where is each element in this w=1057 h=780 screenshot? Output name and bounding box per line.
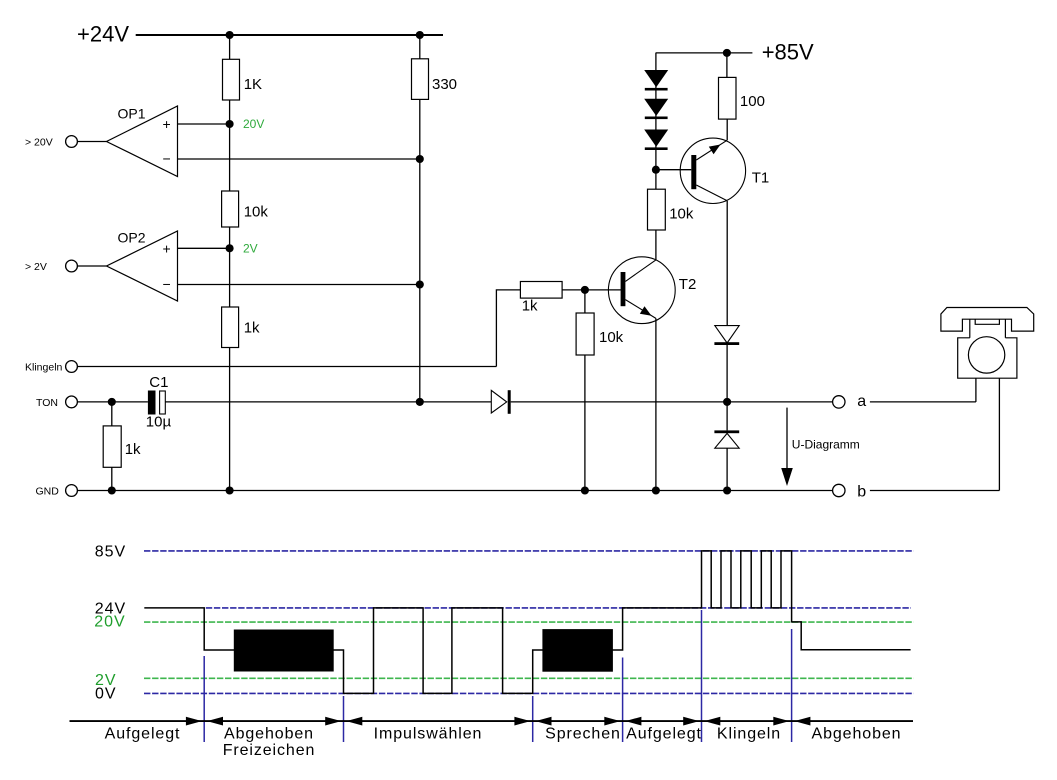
wire D5 to a line <box>726 345 728 402</box>
wire 2V dashed level <box>144 677 914 679</box>
svg-text:10k: 10k <box>599 329 624 346</box>
telephone dial <box>968 337 1004 373</box>
node speech block 1 <box>234 630 334 672</box>
svg-text:> 2V: > 2V <box>25 261 47 273</box>
junction rail-1K <box>226 31 234 39</box>
wire rail to R 330 <box>419 35 421 59</box>
wire Klingeln riser <box>496 290 520 367</box>
terminal a <box>833 396 845 408</box>
svg-text:a: a <box>857 393 866 410</box>
node 20V junction <box>226 120 234 128</box>
wire +24V rail <box>136 34 443 36</box>
node boundary separator 2 <box>343 696 345 742</box>
telephone handset bar detail <box>975 319 999 324</box>
wire a to telephone <box>870 401 976 403</box>
node axis arrows 5 <box>683 717 699 726</box>
wire 1K to node 20V and down <box>229 100 231 191</box>
op-amp OP1 <box>107 106 178 177</box>
node axis arrows 4 <box>604 717 620 726</box>
svg-text:T2: T2 <box>679 276 697 293</box>
svg-text:> 20V: > 20V <box>25 137 53 149</box>
wire TON node to 1k <box>111 402 113 426</box>
svg-text:−: − <box>163 276 171 292</box>
diode D6 <box>714 430 739 433</box>
node axis arrows 2 <box>325 717 341 726</box>
node boundary separator 1 <box>203 656 205 742</box>
wire OP2 output <box>77 265 106 267</box>
wire OP2 - input to 330 branch <box>178 284 420 286</box>
wire T2 collector up to 10k <box>655 230 657 260</box>
telephone neck <box>969 319 971 338</box>
svg-text:b: b <box>857 483 866 500</box>
node axis arrows 6 <box>773 717 789 726</box>
svg-text:T1: T1 <box>752 169 770 186</box>
junction 1k-GND <box>108 486 116 494</box>
wire 85V rail to 100 <box>726 53 728 78</box>
terminal TON <box>66 396 78 408</box>
telephone body <box>958 338 1017 378</box>
svg-text:Aufgelegt: Aufgelegt <box>626 726 702 743</box>
wire 10k pulldown to GND line <box>584 355 586 491</box>
svg-text:+: + <box>163 116 171 132</box>
terminal GND <box>66 485 78 497</box>
transistor T1 <box>680 138 745 203</box>
svg-text:2V: 2V <box>243 241 258 255</box>
wire Klingeln line <box>77 366 496 368</box>
svg-text:10k: 10k <box>244 204 269 221</box>
wire D6 to b line <box>726 448 728 490</box>
resistor 1K <box>223 59 240 100</box>
svg-text:OP1: OP1 <box>118 105 146 121</box>
wire 330 branch down to TON line <box>419 99 421 402</box>
junction D5-a line <box>723 398 731 406</box>
resistor 330 <box>412 59 429 100</box>
wire 1k to GND line <box>111 467 113 490</box>
svg-text:OP2: OP2 <box>118 229 146 245</box>
junction T2 base node <box>581 286 589 294</box>
wire time axis <box>70 720 914 722</box>
wire a line to D6 <box>726 402 728 431</box>
telephone handset <box>941 308 1034 332</box>
svg-text:1k: 1k <box>244 320 260 337</box>
wire U signal trace <box>144 551 910 694</box>
svg-text:0V: 0V <box>95 685 117 702</box>
wire 10k to node 2V <box>229 227 231 307</box>
svg-text:Abgehoben: Abgehoben <box>224 726 314 743</box>
resistor 10k T1 base <box>648 189 666 230</box>
svg-text:20V: 20V <box>94 614 125 631</box>
svg-text:10µ: 10µ <box>146 413 172 430</box>
wire b to telephone <box>870 490 1000 492</box>
resistor 10k pulldown T2 <box>576 313 594 355</box>
svg-text:Freizeichen: Freizeichen <box>223 742 316 759</box>
svg-text:Impulswählen: Impulswählen <box>374 726 483 743</box>
terminal > 2V <box>66 260 78 272</box>
svg-text:C1: C1 <box>149 374 168 391</box>
wire 1k divider down to GND line <box>229 348 231 491</box>
terminal > 20V <box>66 136 78 148</box>
wire telephone leg b <box>998 378 1000 490</box>
svg-text:1K: 1K <box>244 76 262 93</box>
node boundary separator 4 <box>622 658 624 743</box>
diode D1 <box>644 70 668 87</box>
node boundary separator 3 <box>532 696 534 742</box>
svg-text:85V: 85V <box>95 543 126 560</box>
wire diode D4 to terminal a <box>511 401 833 403</box>
wire telephone leg a <box>975 378 977 402</box>
wire 24V dashed level <box>206 607 911 609</box>
wire T1 collector down to D5 <box>726 201 728 326</box>
wire 85V dashed level <box>144 550 914 552</box>
diode D4 on a line <box>491 390 506 413</box>
wire T1 base <box>656 169 691 171</box>
node axis arrows 3 <box>514 717 530 726</box>
wire TON to C1 <box>77 401 147 403</box>
resistor 100 <box>719 77 737 119</box>
node 2V junction <box>226 244 234 252</box>
terminal Klingeln <box>66 361 78 373</box>
svg-text:1k: 1k <box>125 441 141 458</box>
node speech block 2 <box>542 629 613 672</box>
svg-text:−: − <box>163 151 171 167</box>
op-amp OP2 <box>107 231 178 301</box>
wire OP2 + input to 2V node <box>178 247 230 249</box>
wire OP1 output <box>77 141 106 143</box>
junction TON-1k <box>108 398 116 406</box>
wire GND line to terminal b <box>77 490 833 492</box>
junction 10k-GND <box>581 486 589 494</box>
svg-text:Sprechen: Sprechen <box>545 726 621 743</box>
svg-text:20V: 20V <box>243 117 264 131</box>
junction OP1 - on 330 branch <box>416 155 424 163</box>
wire T2 emitter down to GND line <box>655 318 657 490</box>
svg-text:Klingeln: Klingeln <box>717 726 781 743</box>
junction T2 emitter-GND <box>652 486 660 494</box>
svg-text:1k: 1k <box>522 297 538 314</box>
capacitor C1 <box>148 391 156 415</box>
svg-text:+: + <box>163 241 171 257</box>
junction OP2 - on 330 branch <box>416 280 424 288</box>
wire 85V down through diode chain <box>655 53 657 189</box>
U-Diagramm arrow <box>786 408 788 470</box>
junction 330 branch on TON line <box>416 398 424 406</box>
svg-text:GND: GND <box>36 486 60 498</box>
wire 20V dashed level <box>144 621 914 623</box>
junction rail-330 <box>416 31 424 39</box>
junction divider-GND <box>226 486 234 494</box>
node axis arrows 1 <box>186 717 202 726</box>
diode D5 <box>715 326 739 343</box>
svg-text:100: 100 <box>740 93 765 110</box>
transistor T2 <box>608 257 675 324</box>
node boundary separator 5 <box>701 610 703 742</box>
diode D2 <box>644 99 668 116</box>
wire OP1 + input to 20V node <box>178 123 230 125</box>
wire 0V dashed level <box>144 692 914 694</box>
resistor 1k divider <box>222 307 239 348</box>
diode D3 <box>644 130 668 147</box>
wire 1k to T2 base <box>562 289 621 291</box>
wire C1 to diode D4 <box>165 401 491 403</box>
node boundary separator 6 <box>791 629 793 742</box>
terminal b <box>833 484 845 496</box>
wire rail to R 1K <box>229 35 231 59</box>
svg-text:330: 330 <box>432 76 457 93</box>
junction T1 base node <box>652 166 660 174</box>
junction D6-b line <box>723 486 731 494</box>
wire +85V rail <box>656 52 753 54</box>
svg-text:Abgehoben: Abgehoben <box>812 726 902 743</box>
wire OP1 - input to 330 branch <box>178 158 420 160</box>
svg-text:Klingeln: Klingeln <box>25 362 63 374</box>
svg-text:+85V: +85V <box>762 39 814 64</box>
junction 85V rail-100 <box>723 49 731 57</box>
resistor 1k base T2 <box>520 282 562 299</box>
svg-text:Aufgelegt: Aufgelegt <box>105 726 181 743</box>
svg-text:10k: 10k <box>669 205 694 222</box>
svg-text:+24V: +24V <box>77 21 129 46</box>
svg-text:TON: TON <box>36 397 58 409</box>
resistor 10k divider <box>222 191 239 227</box>
wire 100 to T1 emitter <box>726 119 728 140</box>
wire base node to 10k pulldown <box>584 290 586 313</box>
resistor 1k TON-GND <box>103 426 121 467</box>
svg-text:U-Diagramm: U-Diagramm <box>792 437 860 451</box>
